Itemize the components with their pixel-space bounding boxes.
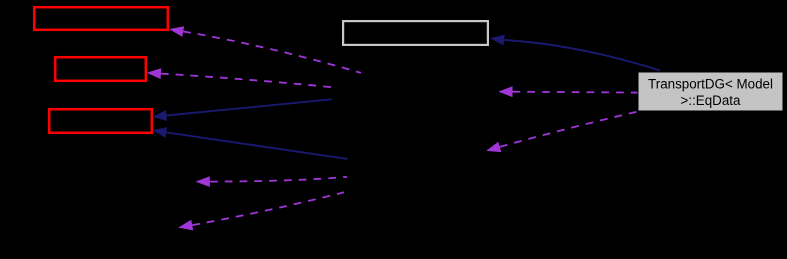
- svg-text:TransportDG< Model: TransportDG< Model: [648, 77, 773, 92]
- node EqData (main node, gray fill): [638, 72, 783, 111]
- edge h (dashed to hidden node): [178, 192, 344, 230]
- edge c1 (solid to box3 upper): [152, 99, 331, 121]
- edge b (dashed to box2): [147, 68, 332, 87]
- edge g (dashed to hidden node): [196, 176, 347, 187]
- node box2 (truncated, red border): [55, 57, 146, 81]
- edge f (dashed from EqData to hidden node): [486, 112, 638, 153]
- node graybox (gray border, empty): [343, 21, 488, 45]
- edge d (solid from EqData to graybox): [490, 35, 660, 71]
- node box1 (truncated, red border): [34, 7, 168, 30]
- edge e (dashed from EqData to hidden node): [498, 86, 638, 97]
- edge a (dashed to box1): [169, 26, 361, 73]
- svg-text:>::EqData: >::EqData: [681, 93, 741, 108]
- node box3 (truncated, red border): [49, 109, 152, 133]
- edge c2 (solid to box3 lower): [152, 127, 347, 159]
